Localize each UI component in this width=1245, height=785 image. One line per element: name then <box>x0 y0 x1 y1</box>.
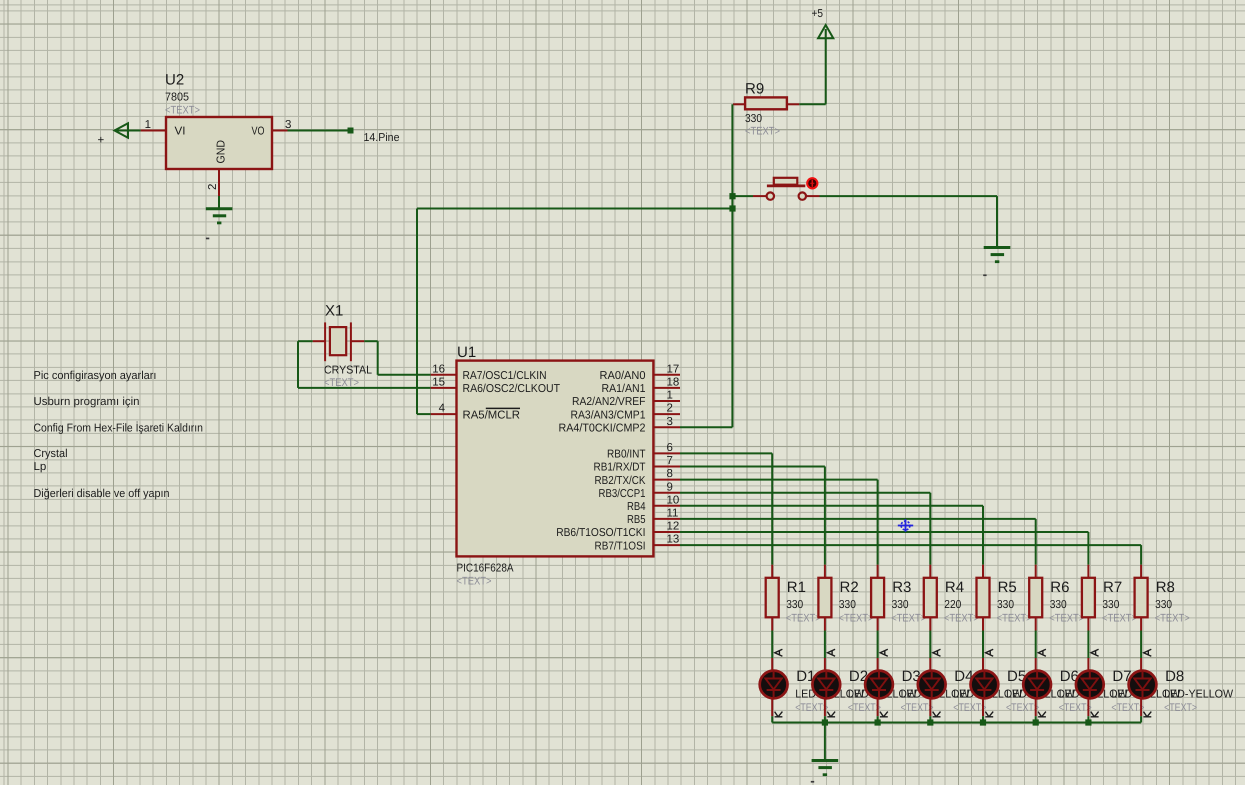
svg-text:17: 17 <box>667 363 680 375</box>
svg-text:<TEXT>: <TEXT> <box>1111 702 1144 714</box>
wire +5 to R9 <box>799 103 826 105</box>
svg-text:R5: R5 <box>998 579 1017 596</box>
svg-text:2: 2 <box>207 184 219 190</box>
junction on bus <box>927 719 933 725</box>
svg-text:R4: R4 <box>945 579 964 596</box>
svg-text:1: 1 <box>667 390 673 402</box>
svg-text:<TEXT>: <TEXT> <box>745 126 780 138</box>
svg-text:LED-YELLOW: LED-YELLOW <box>1164 689 1233 701</box>
ground symbol bottom <box>811 761 838 783</box>
resistor R6 <box>1029 565 1084 631</box>
svg-text:VO: VO <box>252 126 265 138</box>
U2 pin 3 stub <box>272 119 291 131</box>
svg-text:U1: U1 <box>457 344 476 361</box>
svg-text:R2: R2 <box>840 579 859 596</box>
wire R5 to D5 <box>982 631 984 659</box>
wire X1 right to OSC1 pin 16 <box>364 341 430 375</box>
U1 pin 10 (RB4) <box>627 494 680 513</box>
svg-text:RA4/T0CKI/CMP2: RA4/T0CKI/CMP2 <box>559 422 646 434</box>
resistor R9 <box>733 81 799 138</box>
svg-text:330: 330 <box>786 599 803 611</box>
regulator U2 7805 <box>165 72 272 170</box>
svg-text:RB2/TX/CK: RB2/TX/CK <box>595 475 646 487</box>
U1 pin 18 (RA1/AN1) <box>602 377 681 396</box>
svg-text:7805: 7805 <box>165 92 189 104</box>
U1 pin 8 (RB2/TX/CK) <box>595 468 681 487</box>
svg-text:<TEXT>: <TEXT> <box>997 612 1032 624</box>
U1 pin 1 (RA2/AN2/VREF) <box>572 390 680 409</box>
cathode ground bus <box>772 722 1141 724</box>
wire RB0 to R1 <box>680 453 772 564</box>
svg-text:RA3/AN3/CMP1: RA3/AN3/CMP1 <box>571 409 646 421</box>
svg-text:1: 1 <box>145 119 151 131</box>
svg-text:U2: U2 <box>165 72 184 89</box>
svg-text:RA7/OSC1/CLKIN: RA7/OSC1/CLKIN <box>463 370 547 382</box>
wire junction to button left contact <box>732 195 753 197</box>
resistor R2 <box>818 565 873 631</box>
resistor R8 <box>1135 565 1190 631</box>
svg-text:<TEXT>: <TEXT> <box>848 702 881 714</box>
U1 pin 4 (RA5/MCLR) <box>431 403 520 422</box>
wire RB2 to R3 <box>680 480 878 565</box>
LED D2 <box>812 649 917 717</box>
U1 pin 13 (RB7/T1OSI) <box>595 534 681 553</box>
resistor R1 <box>766 565 821 631</box>
svg-text:CRYSTAL: CRYSTAL <box>324 365 373 377</box>
wire bus to ground <box>824 723 826 761</box>
wire X1 left to OSC2 pin 15 <box>298 341 431 388</box>
svg-text:+: + <box>98 135 105 147</box>
svg-text:VI: VI <box>175 126 186 138</box>
wire D1 cathode to bus <box>771 716 773 722</box>
svg-text:3: 3 <box>667 416 673 428</box>
svg-text:18: 18 <box>667 377 680 389</box>
svg-text:<TEXT>: <TEXT> <box>1006 702 1039 714</box>
svg-text:RB7/T1OSI: RB7/T1OSI <box>595 540 646 552</box>
wire D2 cathode to bus <box>824 716 826 722</box>
push button (reset) <box>753 178 820 200</box>
U1 pin 9 (RB3/CCP1) <box>599 481 681 500</box>
wire D3 cathode to bus <box>877 716 879 722</box>
svg-text:15: 15 <box>432 377 445 389</box>
svg-text:10: 10 <box>667 494 680 506</box>
U1 pin 3 (RA4/T0CKI/CMP2) <box>559 416 681 435</box>
svg-text:Config From Hex-File İşareti K: Config From Hex-File İşareti Kaldırın <box>34 421 204 434</box>
svg-text:RA5/MCLR: RA5/MCLR <box>463 409 521 421</box>
svg-text:Crystal: Crystal <box>34 448 68 460</box>
svg-text:Diğerleri disable ve off yapın: Diğerleri disable ve off yapın <box>34 488 170 500</box>
svg-text:330: 330 <box>1050 599 1067 611</box>
junction on bus <box>1033 719 1039 725</box>
wire R2 to D2 <box>824 631 826 659</box>
svg-text:RA6/OSC2/CLKOUT: RA6/OSC2/CLKOUT <box>463 383 561 395</box>
svg-text:Lp: Lp <box>34 461 47 473</box>
U1 pin 7 (RB1/RX/DT) <box>594 455 681 474</box>
crystal X1 <box>313 303 373 390</box>
svg-text:RA2/AN2/VREF: RA2/AN2/VREF <box>572 396 646 408</box>
wire net to RA5/MCLR pin 4 <box>417 209 732 415</box>
svg-text:2: 2 <box>667 403 673 415</box>
wire button to ground <box>820 196 998 247</box>
svg-text:<TEXT>: <TEXT> <box>786 612 821 624</box>
svg-text:Usburn programı için: Usburn programı için <box>34 396 140 408</box>
svg-text:330: 330 <box>1155 599 1172 611</box>
svg-text:7: 7 <box>667 455 673 467</box>
ground symbol right <box>983 248 1010 277</box>
svg-text:R1: R1 <box>787 579 806 596</box>
U1 pin 11 (RB5) <box>627 508 680 527</box>
U1 pin 16 (RA7/OSC1/CLKIN) <box>431 363 547 382</box>
svg-text:RA1/AN1: RA1/AN1 <box>602 383 646 395</box>
wire RB7 to R8 <box>680 545 1141 565</box>
svg-text:Pic configirasyon ayarları: Pic configirasyon ayarları <box>34 370 157 382</box>
wire R7 to D7 <box>1087 631 1089 659</box>
wire R6 to D6 <box>1035 631 1037 659</box>
svg-text:<TEXT>: <TEXT> <box>165 105 200 117</box>
svg-text:<TEXT>: <TEXT> <box>944 612 979 624</box>
wire RB1 to R2 <box>680 467 825 565</box>
svg-text:GND: GND <box>216 140 228 164</box>
wire R9 down to button/MCLR/RA4 net <box>731 104 733 427</box>
node 14.Pine terminal <box>348 128 400 145</box>
LED D8 <box>1129 649 1234 717</box>
svg-text:13: 13 <box>667 534 680 546</box>
wire R4 to D4 <box>929 631 931 659</box>
svg-text:3: 3 <box>285 119 291 131</box>
svg-text:RB0/INT: RB0/INT <box>607 449 646 461</box>
svg-text:<TEXT>: <TEXT> <box>457 576 492 588</box>
junction at MCLR row <box>729 205 735 211</box>
svg-text:R7: R7 <box>1103 579 1122 596</box>
origin marker (blue crosshair) <box>898 519 913 532</box>
svg-text:330: 330 <box>745 113 762 125</box>
U1 pin 17 (RA0/AN0) <box>600 363 681 382</box>
wire RB6 to R7 <box>680 532 1088 565</box>
svg-text:6: 6 <box>667 442 673 454</box>
LED D4 <box>918 649 1023 717</box>
svg-text:9: 9 <box>667 481 673 493</box>
svg-text:R6: R6 <box>1050 579 1069 596</box>
svg-text:12: 12 <box>667 521 680 533</box>
resistor R7 <box>1082 565 1137 631</box>
svg-text:<TEXT>: <TEXT> <box>901 702 934 714</box>
LED D6 <box>1023 649 1128 717</box>
junction at button row <box>729 193 735 199</box>
svg-text:<TEXT>: <TEXT> <box>839 612 874 624</box>
LED D5 <box>971 649 1076 717</box>
input terminal arrow (left of U2) <box>98 123 141 146</box>
svg-text:330: 330 <box>892 599 909 611</box>
svg-text:4: 4 <box>439 403 446 415</box>
svg-text:R8: R8 <box>1156 579 1175 596</box>
svg-text:<TEXT>: <TEXT> <box>795 702 828 714</box>
svg-text:14.Pine: 14.Pine <box>364 132 400 144</box>
svg-text:<TEXT>: <TEXT> <box>1102 612 1137 624</box>
svg-text:11: 11 <box>667 508 679 520</box>
svg-text:330: 330 <box>997 599 1014 611</box>
wire R3 to D3 <box>877 631 879 659</box>
wire RA4 pin 3 to net <box>680 426 732 428</box>
svg-text:RB3/CCP1: RB3/CCP1 <box>599 488 646 500</box>
resistor R5 <box>977 565 1032 631</box>
wire RB3 to R4 <box>680 493 930 565</box>
svg-text:<TEXT>: <TEXT> <box>891 612 926 624</box>
LED D7 <box>1076 649 1181 717</box>
svg-text:<TEXT>: <TEXT> <box>1155 612 1190 624</box>
svg-text:330: 330 <box>839 599 856 611</box>
svg-text:<TEXT>: <TEXT> <box>1164 702 1197 714</box>
svg-text:R9: R9 <box>745 81 764 98</box>
wire D8 cathode to bus <box>1140 716 1142 722</box>
svg-text:220: 220 <box>944 599 961 611</box>
wire D4 cathode to bus <box>929 716 931 722</box>
wire D7 cathode to bus <box>1087 716 1089 722</box>
wire D5 cathode to bus <box>982 716 984 722</box>
wire R8 to D8 <box>1140 631 1142 659</box>
U1 pin 2 (RA3/AN3/CMP1) <box>571 403 681 422</box>
svg-text:RA0/AN0: RA0/AN0 <box>600 370 646 382</box>
LED D3 <box>865 649 970 717</box>
microcontroller U1 PIC16F628A <box>457 344 654 588</box>
svg-text:X1: X1 <box>325 303 343 320</box>
svg-text:8: 8 <box>667 468 673 480</box>
svg-text:16: 16 <box>432 363 445 375</box>
svg-text:PIC16F628A: PIC16F628A <box>457 563 514 575</box>
wire D6 cathode to bus <box>1035 716 1037 722</box>
svg-text:D8: D8 <box>1165 668 1184 685</box>
svg-text:RB1/RX/DT: RB1/RX/DT <box>594 462 646 474</box>
LED D1 <box>760 649 865 717</box>
svg-text:<TEXT>: <TEXT> <box>1049 612 1084 624</box>
wire RB5 to R6 <box>680 519 1036 565</box>
junction on bus <box>822 719 828 725</box>
resistor R3 <box>871 565 926 631</box>
svg-text:R3: R3 <box>892 579 911 596</box>
U1 pin 12 (RB6/T1OSO/T1CKI) <box>556 521 680 540</box>
wire U2.VO to origin terminal <box>288 130 351 132</box>
svg-text:+5: +5 <box>812 8 824 20</box>
resistor R4 <box>924 565 979 631</box>
power terminal +5 <box>812 8 834 104</box>
wire RB4 to R5 <box>680 506 983 565</box>
svg-text:RB4: RB4 <box>627 501 646 513</box>
U2 pin 2 stub (GND) <box>207 169 219 196</box>
svg-text:<TEXT>: <TEXT> <box>953 702 986 714</box>
svg-text:RB5: RB5 <box>627 514 646 526</box>
U2 pin 1 stub <box>141 119 166 131</box>
ground symbol under U2 <box>206 196 233 239</box>
U1 pin 6 (RB0/INT) <box>607 442 680 461</box>
junction on bus <box>980 719 986 725</box>
svg-text:RB6/T1OSO/T1CKI: RB6/T1OSO/T1CKI <box>556 527 645 539</box>
button actuator marker <box>807 178 817 188</box>
junction on bus <box>875 719 881 725</box>
svg-text:<TEXT>: <TEXT> <box>1059 702 1092 714</box>
wire R1 to D1 <box>771 631 773 659</box>
svg-text:330: 330 <box>1102 599 1119 611</box>
U1 pin 15 (RA6/OSC2/CLKOUT) <box>431 377 560 396</box>
junction on bus <box>1085 719 1091 725</box>
